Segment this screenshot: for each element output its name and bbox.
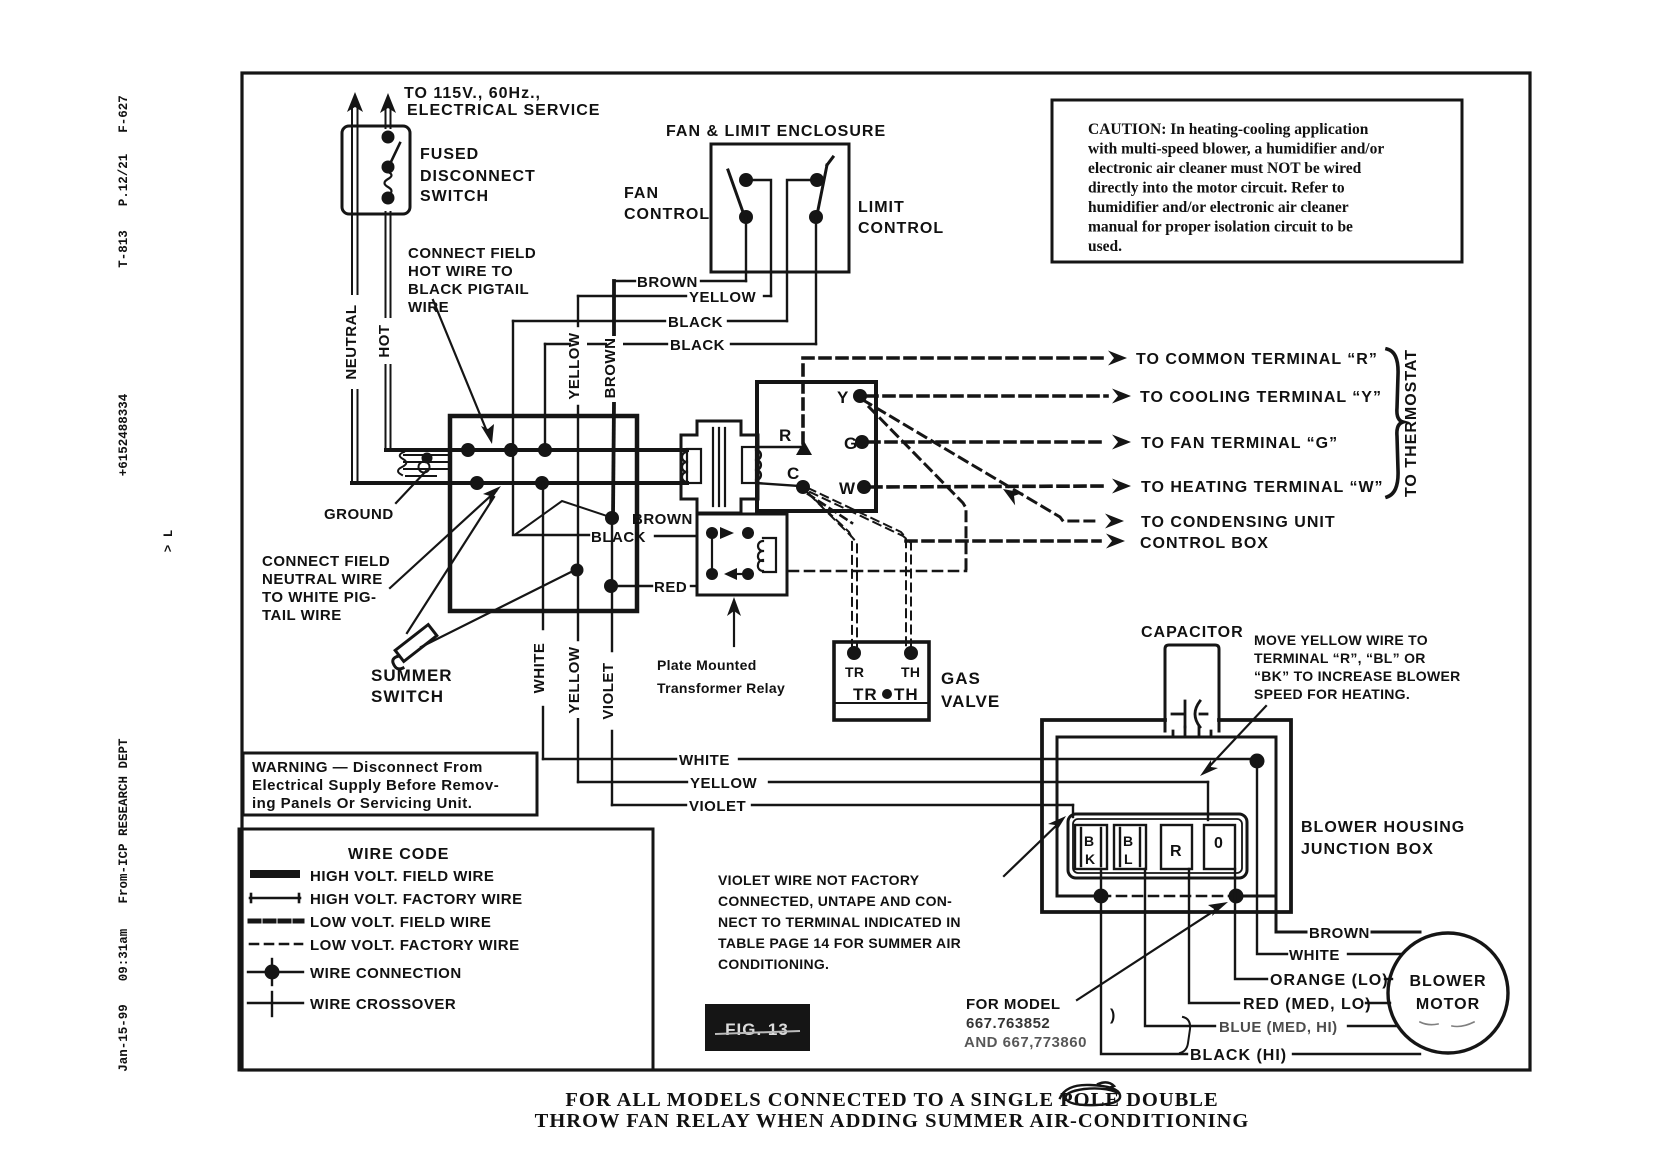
svg-text:HOT WIRE TO: HOT WIRE TO	[408, 263, 513, 280]
terminal BK	[1075, 825, 1107, 869]
label: BROWN pigtail	[632, 511, 693, 528]
svg-text:TERMINAL “R”, “BL” OR: TERMINAL “R”, “BL” OR	[1254, 650, 1426, 666]
gas valve terminals	[847, 646, 918, 660]
label: NEUTRAL (rotated)	[344, 295, 368, 389]
wire brown (inner right edge)	[1276, 737, 1420, 932]
neutral arrowhead	[347, 92, 363, 112]
wire secondary to R	[756, 446, 800, 448]
svg-text:L: L	[1124, 851, 1133, 867]
summer switch wire a	[407, 497, 494, 633]
label: to fan terminal G	[1141, 435, 1338, 452]
label: violet wire note	[718, 872, 961, 972]
wire fan-control to yellow	[746, 180, 771, 296]
wire white row	[543, 758, 1257, 760]
label: VIOLET	[689, 798, 746, 815]
label: to condensing unit control box	[1140, 514, 1336, 552]
svg-text:LOW VOLT. FACTORY WIRE: LOW VOLT. FACTORY WIRE	[310, 937, 520, 954]
wire fan-control to brown	[745, 217, 747, 281]
svg-text:TO CONDENSING UNIT: TO CONDENSING UNIT	[1141, 514, 1336, 531]
svg-text:directly into the motor circui: directly into the motor circuit. Refer t…	[1088, 180, 1345, 197]
fused disconnect switch	[342, 126, 410, 214]
svg-text:R: R	[1170, 843, 1183, 860]
relay K1 box	[697, 514, 787, 595]
node row1 c	[538, 443, 552, 457]
wire dashed relay to control	[789, 570, 966, 573]
svg-text:TO COMMON TERMINAL “R”: TO COMMON TERMINAL “R”	[1136, 351, 1378, 368]
switch blade	[389, 143, 400, 166]
wire black1 drop	[512, 321, 514, 450]
wire neutral (field, double line)	[352, 106, 358, 481]
fan control switch	[739, 173, 753, 224]
pointer move-yellow	[1206, 706, 1266, 770]
svg-text:BLACK: BLACK	[668, 314, 723, 331]
svg-text:WIRE: WIRE	[408, 299, 449, 316]
label: wire code title	[348, 846, 449, 863]
wire dashed G fan	[869, 440, 1107, 444]
label: fused disconnect switch	[420, 146, 536, 205]
relay coil	[758, 538, 776, 572]
svg-text:TR: TR	[853, 685, 878, 704]
label: fan & limit enclosure	[666, 123, 886, 140]
label: WHITE	[679, 752, 730, 769]
svg-text:Electrical Supply Before Remov: Electrical Supply Before Remov-	[252, 777, 499, 794]
label: fan control	[624, 185, 710, 223]
svg-text:TR: TR	[845, 664, 864, 680]
legend wire crossover	[248, 992, 303, 1016]
wire black HI	[1101, 869, 1420, 1054]
svg-text:SPEED FOR HEATING.: SPEED FOR HEATING.	[1254, 686, 1410, 702]
wire dashed control-box branch	[869, 407, 966, 571]
svg-text:TO THERMOSTAT: TO THERMOSTAT	[1403, 349, 1420, 497]
svg-text:AND 667,773860: AND 667,773860	[964, 1034, 1087, 1051]
svg-text:+6152488334: +6152488334	[117, 393, 131, 476]
label: BLACK	[670, 337, 725, 354]
svg-text:CONTROL: CONTROL	[858, 220, 944, 237]
svg-text:WHITE: WHITE	[679, 752, 730, 769]
svg-text:HIGH VOLT. FIELD WIRE: HIGH VOLT. FIELD WIRE	[310, 868, 494, 885]
svg-text:P.12/21: P.12/21	[117, 154, 131, 207]
wire dashed C to TR	[806, 491, 857, 646]
svg-text:FIG. 13: FIG. 13	[725, 1020, 789, 1039]
svg-text:NEUTRAL WIRE: NEUTRAL WIRE	[262, 571, 383, 588]
svg-text:ORANGE (LO): ORANGE (LO)	[1270, 972, 1389, 989]
svg-text:YELLOW: YELLOW	[566, 332, 583, 400]
svg-text:WARNING — Disconnect From: WARNING — Disconnect From	[252, 759, 483, 776]
relay pointer arrow	[733, 604, 735, 646]
label: YELLOW (rotated lower)	[571, 642, 587, 718]
legend low volt factory	[250, 943, 302, 946]
svg-text:F-627: F-627	[117, 95, 131, 133]
svg-text:CONDITIONING.: CONDITIONING.	[718, 956, 829, 972]
wire yellow vertical	[577, 296, 579, 782]
pointer arrow hot pigtail	[433, 300, 488, 434]
wire secondary to C	[756, 483, 799, 486]
label: RED (MED, LO)	[1243, 996, 1372, 1013]
label: BROWN	[1309, 925, 1370, 942]
svg-text:VALVE: VALVE	[941, 692, 1000, 711]
label: connect field neutral wire	[262, 553, 390, 624]
svg-text:RED: RED	[654, 579, 687, 596]
wire limit-control to black1	[787, 180, 817, 321]
svg-text:TO WHITE PIG-: TO WHITE PIG-	[262, 589, 377, 606]
warning box	[243, 753, 537, 815]
label: BLACK (HI)	[1190, 1047, 1287, 1064]
label: to heating terminal W	[1141, 479, 1384, 496]
svg-text:C: C	[787, 464, 800, 483]
svg-text:B: B	[1084, 833, 1094, 849]
wire black row 2	[545, 343, 816, 345]
wire red to relay	[617, 585, 697, 587]
node row2 b	[535, 476, 549, 490]
svg-text:SWITCH: SWITCH	[420, 188, 489, 205]
svg-text:BLACK (HI): BLACK (HI)	[1190, 1047, 1287, 1064]
brown pigtail	[516, 501, 610, 534]
label: GROUND	[324, 506, 394, 523]
label: YELLOW	[689, 289, 757, 306]
svg-text:0: 0	[1214, 835, 1224, 852]
label: gas valve	[941, 669, 1000, 711]
fax header margin text	[117, 95, 176, 1072]
terminal O	[1204, 825, 1235, 869]
pointer violet note	[1004, 821, 1061, 876]
caption line 1	[565, 1089, 1218, 1111]
label: move yellow wire note	[1254, 632, 1461, 702]
label: to common terminal R	[1136, 351, 1378, 368]
model bracket	[1180, 1017, 1190, 1053]
svg-text:GAS: GAS	[941, 669, 981, 688]
label: YELLOW (rotated upper)	[571, 328, 587, 404]
svg-text:B: B	[1123, 833, 1133, 849]
wire orange LO	[1235, 869, 1392, 979]
legend high volt field	[250, 870, 300, 878]
svg-text:CAUTION: In heating-cooling a: CAUTION: In heating-cooling application	[1088, 121, 1369, 138]
svg-text:FUSED: FUSED	[420, 146, 479, 163]
svg-text:electronic air cleaner must NO: electronic air cleaner must NOT be wired	[1088, 160, 1362, 177]
svg-text:CONNECTED, UNTAPE AND CON-: CONNECTED, UNTAPE AND CON-	[718, 893, 952, 909]
fig 13 plate	[705, 1004, 810, 1051]
wire white drop	[1257, 761, 1402, 954]
node row1 a	[461, 443, 475, 457]
legend high volt factory	[250, 894, 300, 902]
node jumper bk	[1094, 889, 1109, 904]
ground clamp	[398, 452, 450, 476]
wire red MED LO	[1189, 869, 1390, 1003]
label: connect field hot wire	[408, 245, 536, 316]
svg-text:TH: TH	[894, 685, 919, 704]
svg-text:VIOLET: VIOLET	[600, 662, 617, 719]
label: blower housing junction box	[1301, 819, 1465, 858]
label: BLUE (MED, HI)	[1219, 1019, 1338, 1036]
label: YELLOW	[690, 775, 758, 792]
label: BLACK	[668, 314, 723, 331]
label: summer switch	[371, 666, 453, 706]
label: WHITE (rotated)	[536, 631, 552, 705]
svg-text:TO FAN TERMINAL “G”: TO FAN TERMINAL “G”	[1141, 435, 1338, 452]
dashed jumper	[1101, 895, 1236, 898]
svg-text:TO COOLING TERMINAL “Y”: TO COOLING TERMINAL “Y”	[1140, 389, 1382, 406]
svg-text:TH: TH	[901, 664, 920, 680]
svg-text:CAPACITOR: CAPACITOR	[1141, 624, 1244, 641]
svg-text:K: K	[1085, 851, 1095, 867]
wire hot (field, double line)	[386, 107, 391, 449]
wire black row 1	[513, 320, 787, 322]
svg-text:WHITE: WHITE	[531, 643, 548, 694]
legend wire connection	[248, 959, 303, 985]
svg-text:MOVE YELLOW WIRE TO: MOVE YELLOW WIRE TO	[1254, 632, 1428, 648]
label: CAPACITOR	[1141, 624, 1244, 641]
terminal Y	[837, 388, 849, 407]
label: for model	[964, 996, 1087, 1051]
wire violet vertical	[611, 518, 613, 805]
pointer for-model	[1077, 907, 1220, 1000]
wire dashed control box	[906, 539, 1100, 543]
svg-text:SUMMER: SUMMER	[371, 666, 453, 685]
label: ORANGE (LO)	[1270, 972, 1389, 989]
svg-text:LOW VOLT. FIELD WIRE: LOW VOLT. FIELD WIRE	[310, 914, 491, 931]
scribble over POLE	[1060, 1082, 1120, 1105]
svg-text:YELLOW: YELLOW	[689, 289, 757, 306]
svg-text:From-ICP RESEARCH DEPT: From-ICP RESEARCH DEPT	[117, 738, 131, 904]
summer switch	[393, 625, 437, 669]
label: HOT (rotated)	[379, 318, 399, 364]
label: to cooling terminal Y	[1140, 389, 1382, 406]
svg-text:manual for proper isolation ci: manual for proper isolation circuit to b…	[1088, 219, 1353, 236]
svg-text:BROWN: BROWN	[1309, 925, 1370, 942]
blower housing junction box outer	[1042, 720, 1291, 912]
fuse element	[385, 172, 392, 195]
svg-text:CONTROL: CONTROL	[624, 206, 710, 223]
svg-text:WIRE CROSSOVER: WIRE CROSSOVER	[310, 996, 456, 1013]
svg-text:): )	[1110, 1007, 1116, 1024]
svg-text:Y: Y	[837, 388, 849, 407]
wire hot row 1	[386, 448, 687, 452]
svg-text:TO HEATING TERMINAL “W”: TO HEATING TERMINAL “W”	[1141, 479, 1384, 496]
svg-text:NEUTRAL: NEUTRAL	[343, 304, 360, 379]
svg-text:ing Panels Or Servicing Unit.: ing Panels Or Servicing Unit.	[252, 795, 472, 812]
svg-text:VIOLET: VIOLET	[689, 798, 746, 815]
svg-text:BLUE (MED, HI): BLUE (MED, HI)	[1219, 1019, 1338, 1036]
svg-text:667.763852: 667.763852	[966, 1015, 1050, 1032]
svg-text:CONNECT FIELD: CONNECT FIELD	[262, 553, 390, 570]
label: BROWN (rotated)	[607, 336, 623, 402]
svg-text:W: W	[839, 479, 856, 498]
frame border	[242, 73, 1530, 1070]
label: TO THERMOSTAT (rotated)	[1403, 349, 1420, 497]
label: limit control	[858, 199, 944, 237]
low volt terminal board	[757, 382, 876, 511]
wire dashed Y cooling	[867, 394, 1107, 398]
label: plate mounted transformer relay	[657, 657, 785, 696]
svg-text:NECT TO TERMINAL INDICATED IN: NECT TO TERMINAL INDICATED IN	[718, 914, 961, 930]
wire dashed W heating	[871, 486, 1107, 487]
transformer secondary coil	[742, 447, 761, 483]
svg-text:CONNECT FIELD: CONNECT FIELD	[408, 245, 536, 262]
svg-text:FAN & LIMIT ENCLOSURE: FAN & LIMIT ENCLOSURE	[666, 123, 886, 140]
svg-text:09:31am: 09:31am	[117, 928, 131, 981]
svg-text:RED (MED, LO): RED (MED, LO)	[1243, 996, 1372, 1013]
wire violet row	[612, 805, 1073, 817]
stray paren	[1110, 1007, 1116, 1024]
svg-text:Transformer Relay: Transformer Relay	[657, 680, 785, 696]
relay contacts	[706, 527, 754, 580]
terminal R	[779, 426, 792, 445]
svg-text:YELLOW: YELLOW	[566, 646, 583, 714]
svg-text:DISCONNECT: DISCONNECT	[420, 168, 536, 185]
label: VIOLET (rotated)	[605, 653, 621, 729]
terminal C	[787, 464, 800, 483]
wire blue MED HI	[1145, 869, 1398, 1026]
svg-text:BLACK: BLACK	[591, 529, 646, 546]
svg-text:with multi-speed blower, a hum: with multi-speed blower, a humidifier an…	[1088, 141, 1384, 158]
wire brown vertical (field)	[613, 281, 614, 517]
node row1 b	[504, 443, 518, 457]
svg-text:YELLOW: YELLOW	[690, 775, 758, 792]
svg-text:ELECTRICAL SERVICE: ELECTRICAL SERVICE	[407, 102, 600, 119]
wire neutral row 2	[352, 481, 687, 485]
svg-text:BROWN: BROWN	[632, 511, 693, 528]
svg-text:BLACK: BLACK	[670, 337, 725, 354]
blower motor M1	[1388, 933, 1508, 1053]
wire black2 drop	[544, 344, 546, 450]
wire dashed C to TH	[808, 488, 911, 646]
hot arrowhead	[380, 93, 396, 113]
node row2 a	[470, 476, 484, 490]
svg-text:WIRE CONNECTION: WIRE CONNECTION	[310, 965, 462, 982]
node red	[604, 579, 618, 593]
svg-text:Jan-15-99: Jan-15-99	[117, 1004, 131, 1072]
wire dashed condensing diagonal	[863, 400, 1100, 521]
svg-text:HOT: HOT	[376, 324, 393, 357]
terminal G	[844, 434, 858, 453]
node brown pigtail	[605, 511, 619, 525]
label: WHITE	[1289, 947, 1340, 964]
summer switch wire b	[421, 571, 573, 647]
label: BLACK pigtail	[591, 529, 646, 546]
transformer primary coil	[682, 449, 701, 483]
svg-text:used.: used.	[1088, 238, 1122, 255]
svg-text:FOR ALL MODELS CONNECTED TO A: FOR ALL MODELS CONNECTED TO A SINGLE POL…	[565, 1089, 1218, 1111]
transformer core	[713, 428, 725, 506]
svg-text:T-813: T-813	[117, 230, 131, 268]
svg-text:CONTROL BOX: CONTROL BOX	[1140, 535, 1269, 552]
caption line 2	[535, 1110, 1250, 1132]
node white blower	[1250, 754, 1265, 769]
caution note box	[1052, 100, 1462, 262]
svg-text:Plate Mounted: Plate Mounted	[657, 657, 757, 673]
terminal BL	[1114, 825, 1146, 869]
svg-text:WHITE: WHITE	[1289, 947, 1340, 964]
svg-text:TO 115V., 60Hz.,: TO 115V., 60Hz.,	[404, 85, 541, 102]
svg-text:humidifier and/or electronic a: humidifier and/or electronic air cleaner	[1088, 199, 1349, 216]
svg-text:TAIL WIRE: TAIL WIRE	[262, 607, 342, 624]
capacitor box	[1165, 645, 1219, 731]
label: TO 115V electrical service	[404, 85, 600, 119]
svg-text:THROW FAN RELAY WHEN ADDING SU: THROW FAN RELAY WHEN ADDING SUMMER AIR-C…	[535, 1110, 1250, 1132]
svg-text:BLOWER HOUSING: BLOWER HOUSING	[1301, 819, 1465, 836]
wire code box	[239, 829, 653, 1070]
legend low volt field	[250, 919, 302, 924]
blower housing junction box inner	[1057, 737, 1276, 896]
wire dashed R common	[803, 358, 1103, 443]
svg-text:FAN: FAN	[624, 185, 659, 202]
label: BROWN	[637, 274, 698, 291]
label: RED	[654, 579, 687, 596]
svg-text:BROWN: BROWN	[602, 338, 619, 399]
svg-text:WIRE CODE: WIRE CODE	[348, 846, 449, 863]
wire dashed C stub	[808, 494, 852, 523]
svg-text:> L: > L	[162, 530, 176, 553]
wire yellow row	[578, 295, 771, 297]
wire black pigtail to relay	[513, 450, 697, 536]
transformer T1 outline	[681, 421, 758, 513]
terminal strip	[1068, 814, 1247, 878]
fan & limit enclosure box	[711, 144, 849, 272]
ground pointer	[396, 471, 426, 503]
svg-text:JUNCTION BOX: JUNCTION BOX	[1301, 841, 1434, 858]
terminal W	[839, 479, 856, 498]
svg-text:GROUND: GROUND	[324, 506, 394, 523]
pointer neutral pigtail	[390, 491, 496, 588]
svg-text:FOR MODEL: FOR MODEL	[966, 996, 1061, 1013]
junction box	[450, 416, 637, 611]
svg-text:“BK” TO INCREASE BLOWER: “BK” TO INCREASE BLOWER	[1254, 668, 1461, 684]
svg-text:VIOLET WIRE NOT FACTORY: VIOLET WIRE NOT FACTORY	[718, 872, 920, 888]
svg-text:BLACK PIGTAIL: BLACK PIGTAIL	[408, 281, 529, 298]
node yellow summer	[571, 564, 584, 577]
svg-text:R: R	[779, 426, 792, 445]
svg-text:SWITCH: SWITCH	[371, 687, 444, 706]
node jumper o	[1229, 889, 1244, 904]
svg-text:BLOWER: BLOWER	[1409, 973, 1486, 990]
wire white vertical	[542, 483, 544, 759]
thermostat brace	[1387, 349, 1403, 497]
terminal R	[1161, 825, 1192, 869]
svg-text:HIGH VOLT. FACTORY WIRE: HIGH VOLT. FACTORY WIRE	[310, 891, 523, 908]
svg-text:LIMIT: LIMIT	[858, 199, 905, 216]
wire brown row	[614, 280, 746, 282]
svg-text:TABLE PAGE 14 FOR SUMMER AIR: TABLE PAGE 14 FOR SUMMER AIR	[718, 935, 961, 951]
svg-text:MOTOR: MOTOR	[1416, 996, 1480, 1013]
wire yellow row	[578, 782, 1208, 820]
gas valve box	[834, 642, 929, 720]
limit control switch	[809, 173, 824, 224]
capacitor symbol	[1172, 701, 1211, 737]
wire limit-control to black2	[815, 217, 817, 344]
